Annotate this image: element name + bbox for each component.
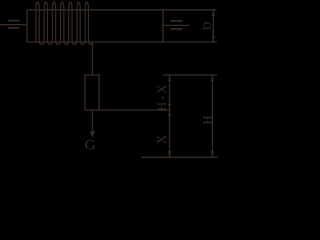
rod internal divider	[162, 10, 164, 42]
arrowhead D top	[212, 10, 215, 16]
middle reference line	[99, 109, 170, 111]
right break symbol upper bar	[171, 20, 183, 22]
dimension line H-X	[169, 75, 171, 110]
right break symbol middle line	[163, 24, 190, 26]
arrowhead X bottom	[168, 151, 171, 157]
wire from resistor down to arrow	[91, 110, 93, 132]
arrowhead H bottom	[211, 151, 214, 157]
left break symbol lower bar	[8, 27, 20, 29]
coil winding: top arches, legs, bottom arcs	[36, 2, 92, 45]
dimension line H	[211, 75, 213, 157]
left break symbol upper bar	[8, 20, 20, 22]
rod top edge	[27, 9, 217, 11]
bottom reference line	[141, 156, 218, 158]
rod bottom edge	[27, 41, 217, 43]
svg-text:H: H	[201, 115, 215, 124]
arrowhead X top	[168, 111, 171, 117]
svg-text:H-X: H-X	[154, 83, 169, 112]
svg-text:D: D	[202, 22, 214, 30]
right break symbol lower bar	[171, 28, 183, 30]
top reference line	[163, 74, 217, 76]
rod left end	[26, 10, 28, 42]
left break symbol middle line	[0, 24, 27, 26]
arrowhead D bottom	[212, 36, 215, 42]
dimension line X	[169, 110, 171, 157]
wire from coil down to resistor	[91, 42, 93, 75]
arrowhead H top	[211, 76, 214, 82]
svg-text:X: X	[155, 134, 170, 144]
arrowhead H-X top	[168, 76, 171, 82]
arrow to G	[90, 131, 96, 138]
resistor box	[85, 75, 99, 110]
arrowhead H-X bottom	[168, 104, 171, 110]
dimension line D	[212, 10, 214, 42]
svg-text:G: G	[85, 138, 96, 154]
